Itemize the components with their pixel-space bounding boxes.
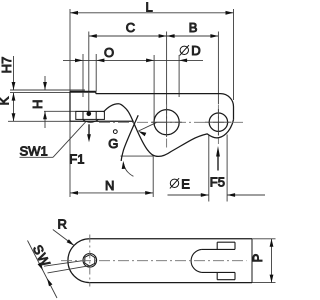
svg-text:SW1: SW1 xyxy=(20,144,48,159)
svg-text:L: L xyxy=(146,0,153,14)
svg-text:G: G xyxy=(108,136,118,151)
svg-text:R: R xyxy=(58,216,67,231)
svg-text:P: P xyxy=(250,254,265,263)
svg-text:O: O xyxy=(104,45,114,60)
svg-text:C: C xyxy=(126,20,135,35)
svg-text:N: N xyxy=(105,178,114,193)
svg-text:D: D xyxy=(191,43,200,58)
svg-text:E: E xyxy=(181,177,190,192)
svg-text:H7: H7 xyxy=(0,57,14,74)
svg-text:F5: F5 xyxy=(210,175,225,190)
svg-text:K: K xyxy=(0,96,11,105)
svg-text:H: H xyxy=(30,100,45,109)
svg-text:F1: F1 xyxy=(69,152,84,167)
svg-text:B: B xyxy=(189,20,198,35)
